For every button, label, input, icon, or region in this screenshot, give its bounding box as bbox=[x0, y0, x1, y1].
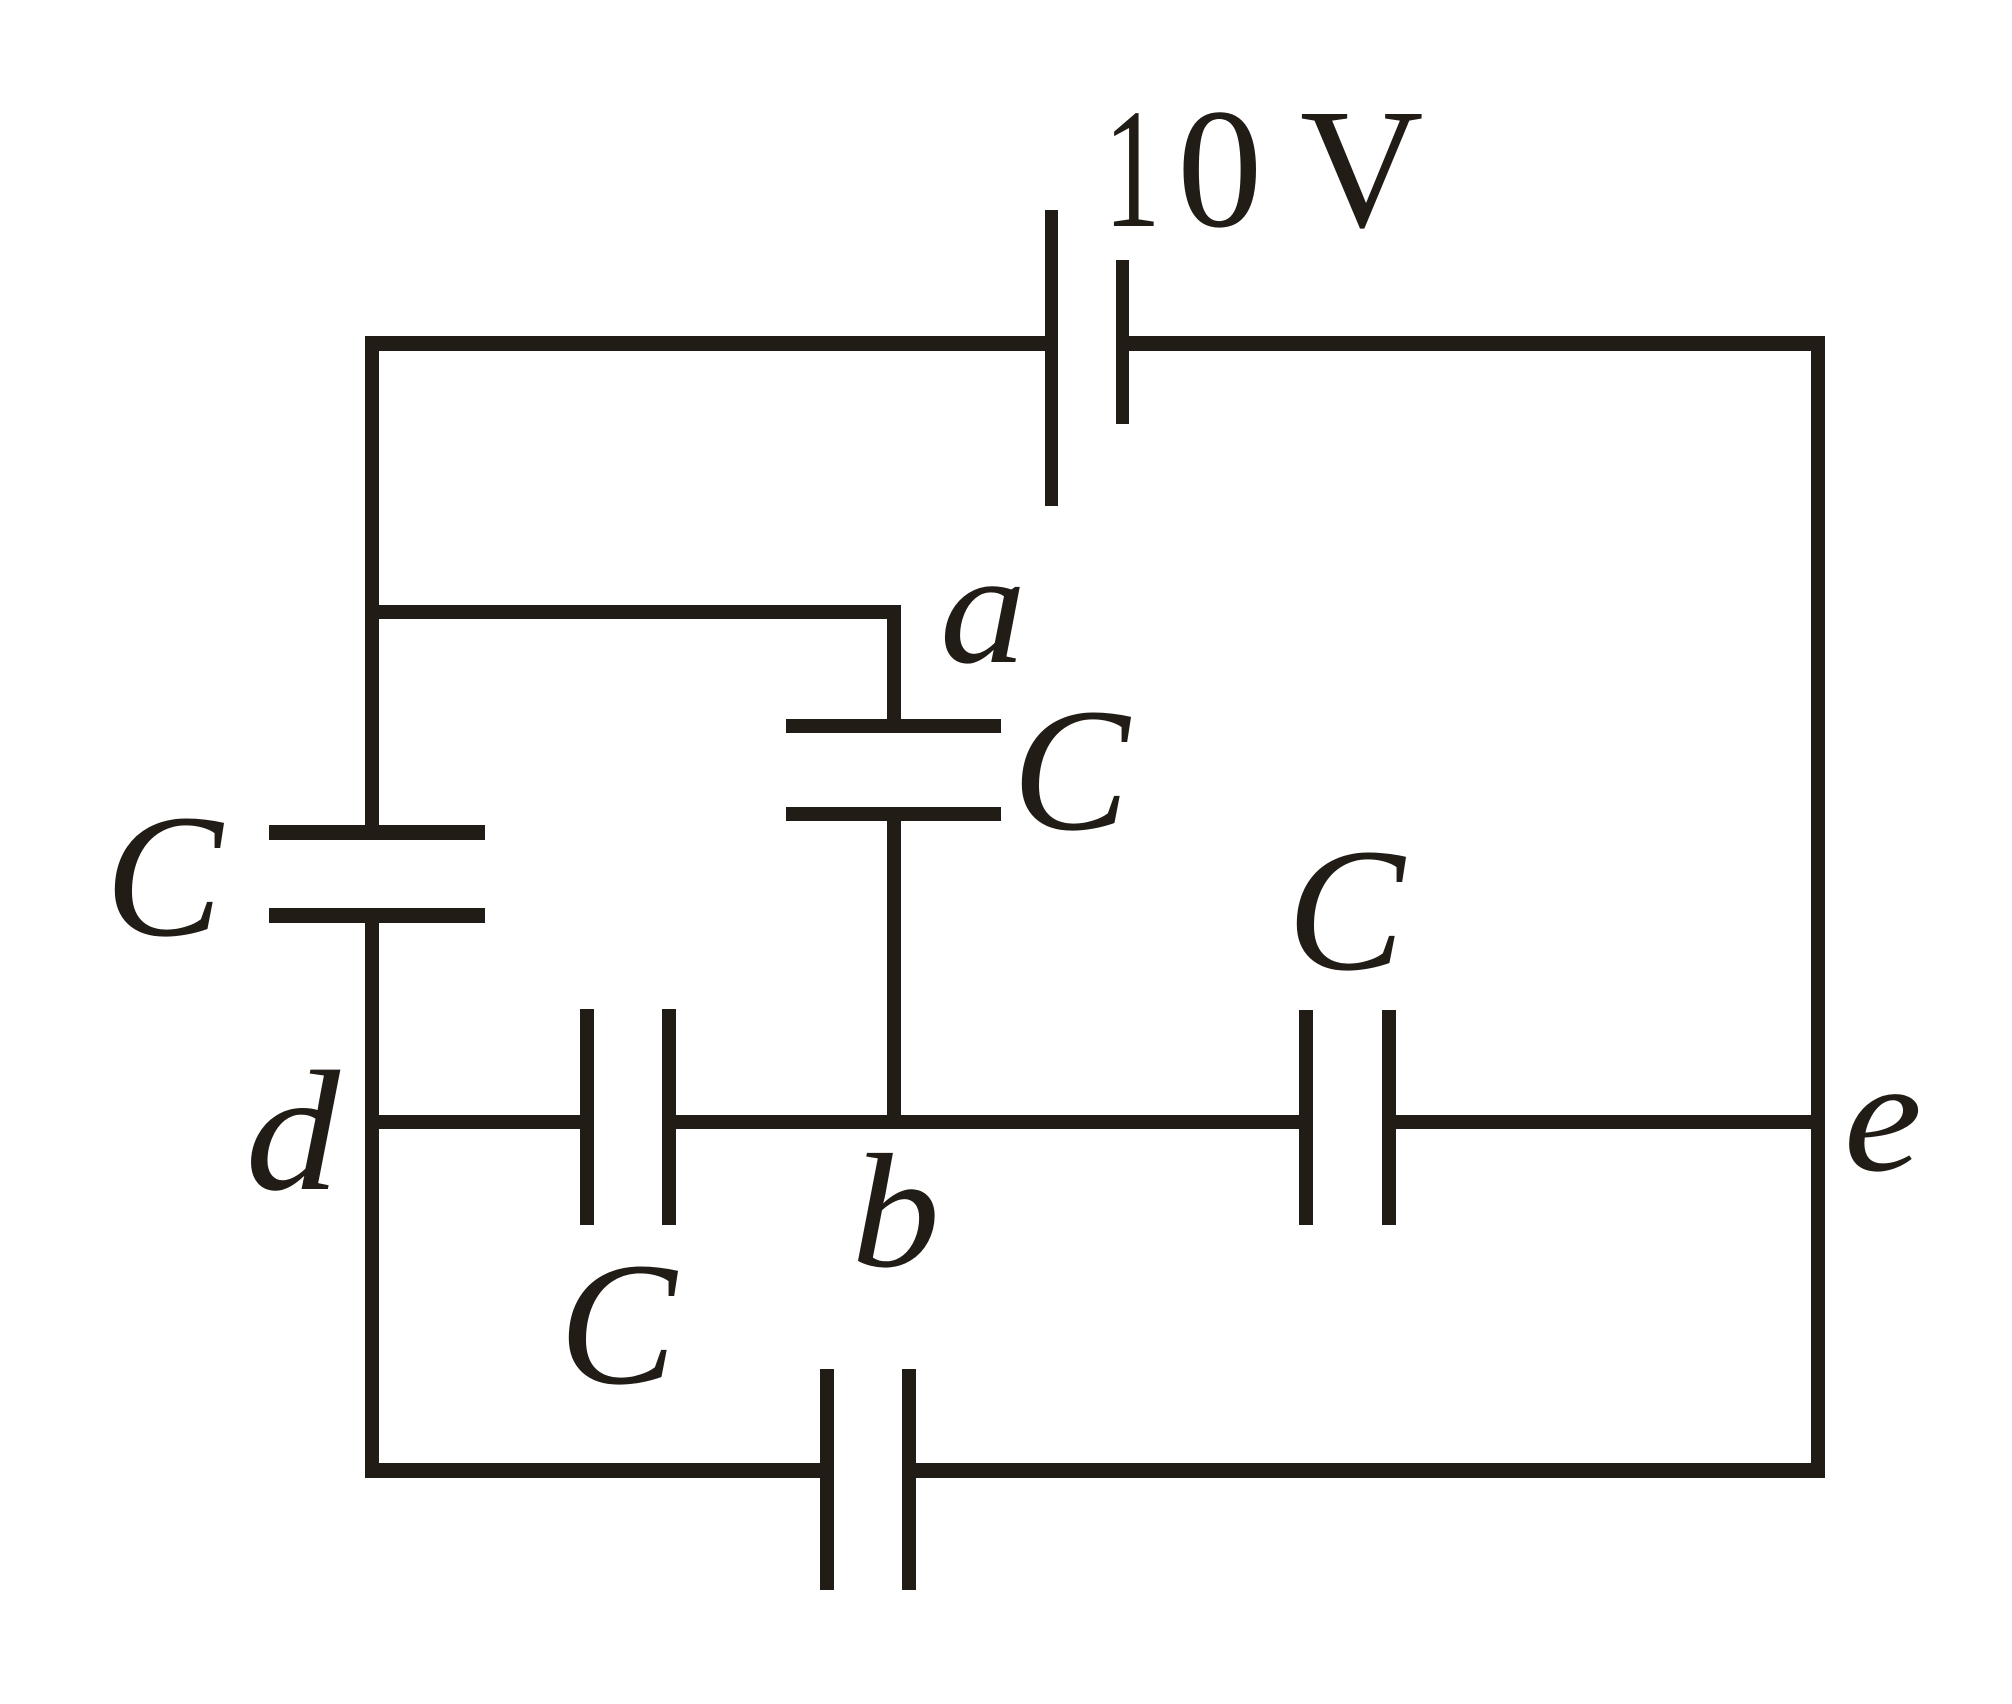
wire: stub from capacitor C1 down to node b bbox=[887, 812, 901, 1125]
wire: top left segment (from top-left corner to battery) bbox=[365, 336, 1052, 351]
capacitor C4 left plate (between b and e) bbox=[1299, 1010, 1313, 1225]
capacitor C5 left plate (bottom branch) bbox=[820, 1369, 834, 1590]
capacitor C2 top plate (left branch) bbox=[269, 825, 485, 840]
wire: bottom left segment bbox=[365, 1463, 827, 1478]
wire: middle segment from capacitor C4 to node e bbox=[1390, 1115, 1825, 1129]
svg-text:1: 1 bbox=[1104, 75, 1160, 264]
wire: left vertical upper segment bbox=[365, 336, 379, 833]
svg-text:b: b bbox=[851, 1120, 940, 1301]
capacitor C3 left plate (between d and b) bbox=[580, 1009, 594, 1225]
svg-text:C: C bbox=[559, 1227, 679, 1422]
capacitor C2 bottom plate bbox=[269, 908, 485, 923]
svg-text:a: a bbox=[940, 519, 1026, 697]
wire: middle segment from node d to capacitor C3 bbox=[365, 1115, 585, 1129]
wire: branch to node a bbox=[365, 605, 901, 619]
wire: stub from node a down to capacitor C1 bbox=[887, 612, 901, 730]
capacitor C1 top plate (at node a) bbox=[786, 719, 1001, 733]
wire: top right segment (from battery to top-right corner) bbox=[1123, 336, 1825, 351]
wire: left vertical lower segment bbox=[365, 915, 379, 1477]
capacitor C5 right plate bbox=[902, 1369, 916, 1590]
wire: right vertical segment bbox=[1811, 336, 1825, 1477]
capacitor C4 right plate bbox=[1382, 1010, 1396, 1225]
svg-text:0V: 0V bbox=[1177, 74, 1424, 263]
wire: middle segment from capacitor C3 through node b to capacitor C4 bbox=[670, 1115, 1305, 1129]
capacitor C1 bottom plate bbox=[786, 807, 1001, 821]
svg-text:e: e bbox=[1844, 1026, 1922, 1205]
svg-text:d: d bbox=[245, 1037, 340, 1227]
capacitor C3 right plate bbox=[662, 1009, 676, 1225]
battery V1 short plate (negative) bbox=[1116, 260, 1129, 424]
svg-text:C: C bbox=[105, 779, 225, 974]
wire: bottom right segment bbox=[910, 1463, 1825, 1478]
svg-text:C: C bbox=[1287, 813, 1407, 1008]
battery V1 long plate (positive) bbox=[1045, 210, 1058, 506]
svg-text:C: C bbox=[1012, 673, 1132, 868]
